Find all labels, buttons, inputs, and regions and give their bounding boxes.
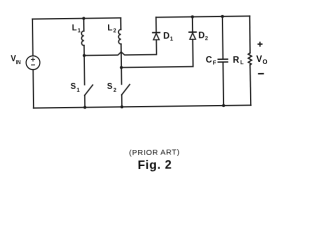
svg-text:O: O — [262, 59, 267, 66]
label S2 — [107, 82, 117, 94]
label D2 — [198, 30, 208, 42]
svg-text:IN: IN — [16, 60, 21, 66]
label L1 — [72, 23, 81, 34]
label output plus — [258, 42, 262, 46]
svg-text:L: L — [107, 23, 112, 32]
diode D2 — [189, 17, 196, 40]
node X1 under L1 — [83, 54, 86, 57]
label output minus — [259, 73, 263, 75]
label VIN — [11, 54, 22, 66]
switch S1 — [84, 55, 93, 107]
switch S2 — [121, 67, 130, 106]
capacitor CF — [218, 16, 229, 105]
label D1 — [163, 30, 173, 42]
node CF / bottom rail — [222, 104, 225, 107]
voltage source VIN — [26, 56, 40, 70]
svg-text:D: D — [163, 31, 169, 41]
svg-text:1: 1 — [78, 28, 81, 34]
svg-text:V: V — [256, 54, 262, 64]
label S1 — [71, 82, 80, 94]
svg-text:1: 1 — [77, 88, 80, 94]
svg-text:2: 2 — [113, 88, 116, 94]
diode D1 — [153, 17, 160, 40]
node S2 / bottom rail — [120, 105, 123, 108]
svg-text:2: 2 — [113, 28, 116, 34]
node X2 under L2 — [120, 66, 123, 69]
label CF — [206, 54, 217, 66]
svg-text:D: D — [198, 30, 204, 40]
wire VIN top lead — [31, 19, 33, 56]
wire output top rail — [156, 16, 250, 17]
inductor L2 — [118, 18, 121, 68]
label VO — [256, 54, 267, 66]
svg-text:(PRIOR ART): (PRIOR ART) — [129, 147, 180, 157]
wire VIN bottom lead — [32, 70, 35, 108]
caption Fig. 2 — [138, 157, 173, 171]
svg-text:1: 1 — [170, 37, 173, 43]
node S1 / bottom rail — [83, 106, 86, 109]
wire input top rail — [32, 18, 120, 19]
label RL — [233, 54, 244, 66]
node input rail / L1 — [82, 17, 85, 20]
inductor L1 — [81, 18, 84, 55]
svg-text:L: L — [240, 60, 244, 66]
wire node X1 to D1 anode (with hop over L2) — [84, 40, 156, 56]
svg-text:L: L — [72, 23, 77, 32]
resistor RL — [248, 16, 253, 105]
svg-text:S: S — [107, 82, 113, 91]
node D2 / output rail — [191, 15, 194, 18]
svg-text:Fig. 2: Fig. 2 — [138, 157, 173, 171]
wire bottom rail — [34, 105, 251, 108]
svg-text:R: R — [233, 55, 240, 65]
svg-text:F: F — [213, 61, 217, 67]
wire node X2 to D2 anode — [121, 39, 193, 67]
svg-text:2: 2 — [205, 36, 208, 42]
svg-text:C: C — [206, 54, 213, 64]
label L2 — [107, 23, 116, 34]
caption PRIOR ART — [129, 147, 180, 157]
node CF / output rail — [221, 15, 224, 18]
